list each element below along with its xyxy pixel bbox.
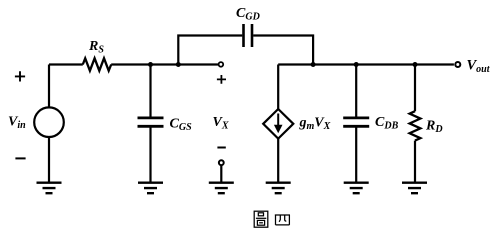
resistor RS: [83, 58, 111, 70]
wire: right horizontal net (drain to Vout): [278, 63, 454, 65]
svg-text:RD: RD: [425, 119, 443, 136]
ground (RD): [402, 183, 427, 194]
node: junction dot at RD: [413, 62, 418, 67]
node: junction dot at CDB: [354, 62, 359, 67]
svg-text:CGD: CGD: [236, 6, 260, 23]
ground (VX terminal): [209, 183, 234, 194]
wire: CDB stems: [355, 65, 357, 182]
terminal: VX reference open circle: [219, 160, 224, 165]
ground (current source): [266, 183, 291, 194]
svg-text:RS: RS: [88, 39, 104, 56]
svg-text:CDB: CDB: [375, 115, 399, 132]
wire: Vin source stems: [48, 65, 50, 182]
label + (VX): [217, 75, 226, 84]
capacitor CGD: [244, 24, 253, 47]
node: junction dot at CGD/drain: [311, 62, 316, 67]
wire: VX terminal stem: [220, 165, 222, 181]
ground (Vin): [37, 183, 62, 194]
ground (CDB): [344, 183, 369, 194]
label - (VX): [217, 147, 225, 149]
terminal: gate open circle: [219, 62, 224, 67]
svg-text:Vout: Vout: [467, 57, 491, 75]
node: junction dot at CGD riser: [176, 62, 181, 67]
svg-text:VX: VX: [213, 115, 229, 132]
caption: character 圖: [254, 211, 268, 227]
label - (Vin): [15, 157, 25, 159]
wire: current source stems: [277, 65, 279, 182]
resistor RD: [410, 111, 421, 140]
svg-text:gmVX: gmVX: [299, 116, 331, 133]
ground (CGS): [138, 183, 163, 194]
wire: RD stems: [414, 65, 416, 182]
node: junction dot at RS/CGS: [148, 62, 153, 67]
capacitor CDB: [343, 118, 369, 126]
caption: character 四: [275, 215, 290, 225]
wire: CGD branch (riser, top run, down to drain): [178, 36, 313, 65]
label + (Vin): [15, 71, 25, 81]
current source gmVX (diamond): [263, 109, 293, 139]
svg-text:CGS: CGS: [170, 117, 193, 134]
capacitor CGS: [138, 118, 164, 126]
svg-text:Vin: Vin: [8, 115, 26, 132]
wire: left horizontal net (Vin top to gate terminal): [49, 63, 218, 65]
voltage source Vin: [34, 107, 64, 137]
current source arrow: [277, 114, 279, 127]
terminal: Vout open circle: [455, 62, 460, 67]
wire: CGS stems: [149, 65, 151, 182]
